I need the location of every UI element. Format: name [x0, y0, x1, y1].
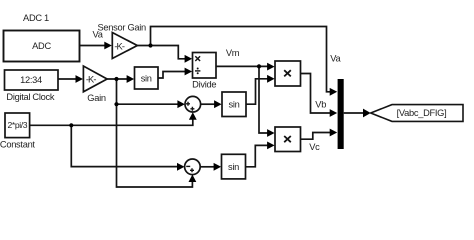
svg-text:sin: sin [228, 162, 239, 172]
wire sin2 to P1 second input [246, 79, 268, 104]
wire Gain out to sin1 [107, 78, 127, 80]
arrowhead into sin3 [214, 163, 222, 171]
svg-text:sin: sin [229, 100, 240, 110]
svg-text:Constant: Constant [0, 140, 35, 150]
arrowhead into S1 left [177, 100, 185, 108]
wire Va top run to mux input1 [151, 27, 331, 92]
svg-text:2*pi/3: 2*pi/3 [8, 120, 28, 130]
wire sin1 to Divide div-input [158, 72, 185, 79]
arrowhead into P2 input2 [267, 142, 275, 150]
gain Sensor Gain (triangle) [112, 33, 137, 59]
svg-text:Vm: Vm [226, 48, 240, 58]
arrowhead into P1 input1 [267, 63, 275, 71]
arrowhead into Gain [76, 75, 84, 83]
arrowhead into mux input1 [330, 88, 338, 96]
arrowhead into mux input3 [330, 129, 338, 137]
svg-text:[Vabc_DFIG]: [Vabc_DFIG] [397, 108, 447, 118]
sum S2 plus bottom [190, 168, 194, 172]
mux M1 [338, 79, 344, 149]
junction dot Gain out [114, 77, 118, 81]
svg-text:Va: Va [93, 30, 104, 40]
product2 x symbol [284, 136, 291, 142]
svg-text:Gain: Gain [87, 93, 106, 103]
sum S1 plus left [186, 102, 190, 106]
block Digital Clock (12:34) [5, 70, 59, 90]
svg-text:Va: Va [330, 54, 341, 64]
gain Gain (triangle) [83, 66, 107, 92]
block Divide [193, 53, 217, 79]
goto tag [Vabc_DFIG] [371, 105, 463, 122]
block sin3 [222, 154, 246, 179]
wire Constant branch to S2 left [71, 125, 178, 166]
arrowhead into sin1 [127, 75, 135, 83]
sum S1 [185, 96, 201, 112]
wire Constant to S1 bottom [30, 119, 193, 126]
divide div symbol [195, 70, 200, 72]
sum S2 minus left [186, 165, 190, 167]
svg-text:12:34: 12:34 [20, 75, 42, 85]
junction dot Sensor Gain out [148, 43, 152, 47]
arrowhead into S1 bottom (up) [189, 112, 197, 120]
arrowhead into mux input2 [330, 109, 338, 117]
arrowhead into Divide div-input [185, 68, 193, 76]
wire Vm branch down to P2 [259, 66, 268, 133]
arrowhead into S2 left [177, 163, 185, 171]
wire P1 to mux input2 [301, 74, 331, 114]
product1 x symbol [284, 70, 291, 76]
block sin2 [222, 92, 246, 117]
wire sin3 to P2 second input [246, 145, 268, 166]
wire Clock to Gain [58, 78, 76, 80]
svg-text:-K-: -K- [86, 74, 96, 84]
svg-text:Digital Clock: Digital Clock [6, 92, 54, 102]
wire P2 to mux input3 [301, 133, 331, 140]
wire S1 to sin2 [201, 103, 215, 105]
arrowhead into Divide x-input [185, 55, 193, 63]
block ADC [4, 31, 80, 62]
svg-text:-K-: -K- [114, 41, 124, 51]
svg-text:Divide: Divide [192, 80, 216, 90]
junction dot Vm branch [257, 64, 261, 68]
arrowhead into S2 bottom (up) [189, 175, 197, 183]
sum S2 [185, 159, 201, 175]
constant 2*pi/3 [5, 113, 30, 138]
arrowhead into goto tag [363, 109, 371, 118]
wire ADC to Sensor Gain [80, 45, 106, 47]
product P2 [275, 127, 301, 152]
block sin1 [135, 67, 159, 89]
arrowhead into Sensor Gain [104, 42, 112, 50]
wire mux out to goto [344, 112, 364, 114]
junction dot theta to S1 [114, 102, 118, 106]
wire Divide out Vm [216, 65, 268, 67]
arrowhead into P1 input2 [267, 75, 275, 83]
divide div symbol dots [197, 68, 199, 70]
sum S1 plus bottom [190, 107, 194, 111]
svg-text:Vc: Vc [309, 142, 320, 152]
arrowhead into sin2 [214, 100, 222, 108]
svg-text:ADC 1: ADC 1 [23, 13, 49, 23]
wire Sensor Gain out to Divide x-input [137, 46, 185, 59]
wire S2 to sin3 [200, 166, 214, 168]
svg-text:Sensor Gain: Sensor Gain [98, 23, 147, 33]
divide x symbol [195, 56, 200, 61]
svg-text:ADC: ADC [32, 41, 51, 51]
junction dot Constant branch [69, 123, 73, 127]
arrowhead into P2 input1 [267, 129, 275, 137]
wire theta down to S2 bottom [117, 79, 193, 187]
wire theta branch to S1 left [117, 103, 179, 105]
product P1 [275, 61, 301, 86]
svg-text:Vb: Vb [315, 99, 326, 109]
svg-text:sin: sin [141, 73, 152, 83]
